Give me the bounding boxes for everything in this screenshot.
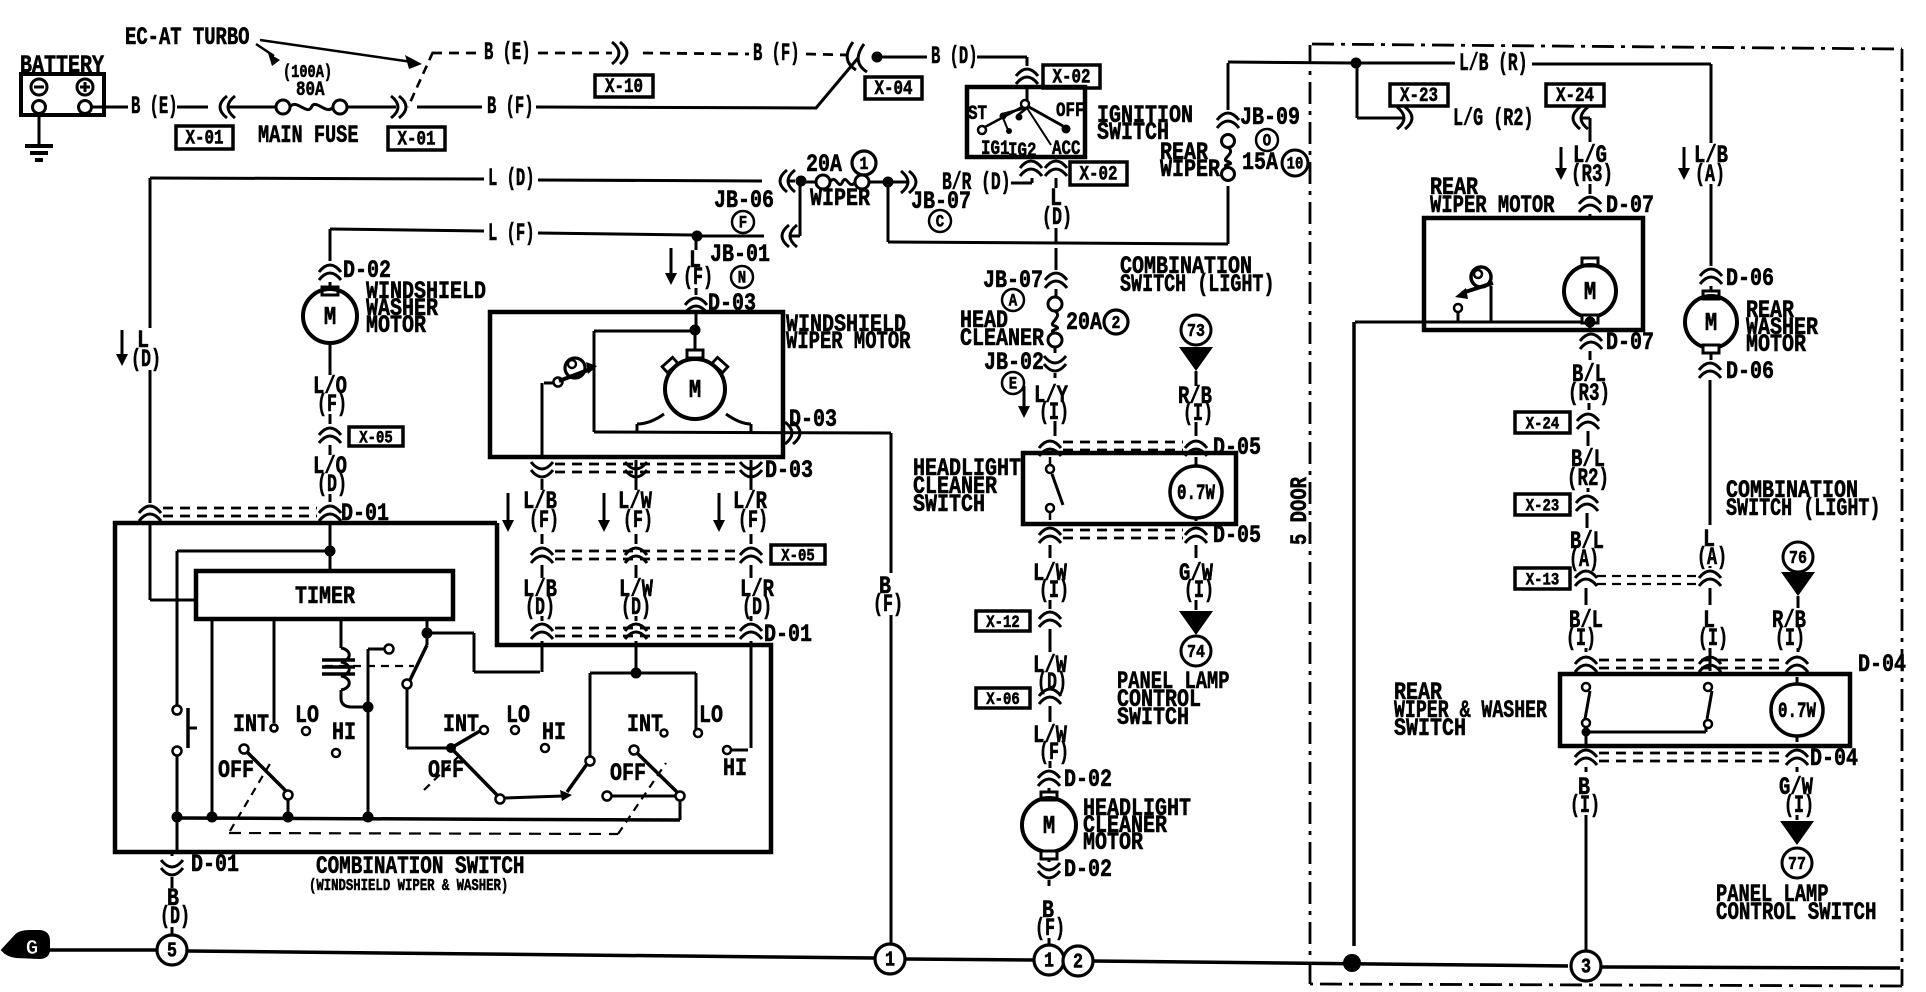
wire to section B pivot — [407, 747, 447, 750]
label COMBINATION SWITCH (LIGHT) right — [1726, 476, 1881, 523]
label L/O (D) — [313, 452, 347, 499]
svg-text:(F): (F) — [738, 506, 768, 535]
svg-text:L/B (R): L/B (R) — [1459, 49, 1528, 78]
connector D-04 top row — [1575, 650, 1906, 679]
svg-text:(D): (D) — [525, 593, 555, 622]
bus nodes 1 2 — [1034, 945, 1093, 976]
wire rear wiper feed vertical — [1227, 63, 1230, 244]
fuse 15A rear wiper — [1222, 135, 1309, 181]
label L/G (R2) — [1453, 104, 1534, 133]
wire L(D) into timer — [150, 599, 194, 602]
wire G/W from bulb — [1179, 545, 1214, 605]
switch blade B lower — [451, 748, 505, 804]
wire to D-01 row — [329, 494, 332, 502]
wire rail L(D) — [150, 164, 762, 193]
label INT A — [233, 710, 269, 739]
connector X-05 washer — [319, 428, 341, 455]
connector box X-05 washer — [349, 427, 403, 449]
wire box to D-01 — [171, 852, 174, 856]
label B/L (A) — [1569, 527, 1604, 574]
connector JB-01 N — [710, 240, 770, 288]
wiper motor M2 feed — [690, 318, 701, 350]
label IG2 — [1008, 139, 1037, 162]
label WINDSHIELD WASHER MOTOR — [366, 277, 486, 340]
dashed link EC-AT — [408, 52, 433, 107]
svg-text:1: 1 — [885, 948, 895, 972]
svg-text:ST: ST — [968, 102, 987, 125]
mech link long dash — [229, 833, 618, 834]
label INT B — [443, 710, 479, 739]
bus node 1 (left) — [875, 944, 905, 974]
svg-text:1: 1 — [860, 153, 869, 175]
circle 76 marker — [1781, 542, 1815, 608]
svg-text:INT: INT — [233, 710, 269, 739]
label L/O (F) — [313, 372, 347, 419]
wire to X-01 right — [347, 106, 396, 109]
connector D-01 row left (washer) — [139, 499, 389, 528]
svg-text:BATTERY: BATTERY — [20, 51, 105, 80]
wire B output — [505, 790, 572, 801]
connector box X-01 right — [388, 127, 445, 151]
svg-text:WIPER MOTOR: WIPER MOTOR — [1430, 191, 1555, 220]
connector D-01 bottom — [161, 850, 239, 879]
svg-text:OFF: OFF — [610, 759, 646, 788]
circle 73 from-marker — [1179, 315, 1213, 386]
wire col3 gap1 — [750, 460, 753, 490]
svg-text:MAIN FUSE: MAIN FUSE — [258, 121, 359, 150]
label LO A — [295, 701, 319, 730]
svg-text:D-02: D-02 — [1064, 855, 1112, 884]
wire C output to bus — [177, 800, 680, 820]
label OFF C — [610, 759, 646, 788]
label PANEL LAMP CONTROL SWITCH mid — [1117, 667, 1230, 732]
connector D-03 (wiper motor top) — [685, 289, 756, 318]
svg-text:76: 76 — [1789, 547, 1807, 569]
svg-text:X-01: X-01 — [398, 128, 436, 151]
connector X-10 — [595, 42, 653, 98]
svg-text:X-13: X-13 — [1526, 571, 1560, 591]
wire col2 gap2 — [635, 534, 638, 544]
svg-text:5: 5 — [167, 939, 177, 963]
svg-text:20A: 20A — [806, 150, 843, 179]
svg-text:HI: HI — [332, 718, 356, 747]
connector JB-07 A — [983, 248, 1067, 311]
svg-text:D-03: D-03 — [765, 456, 813, 485]
rear wiper motor box — [1424, 218, 1643, 330]
svg-text:OFF: OFF — [428, 756, 464, 785]
svg-text:X-02: X-02 — [1080, 163, 1118, 186]
label L/R (D) col3 — [740, 575, 775, 622]
svg-text:D-02: D-02 — [1064, 765, 1112, 794]
label INT C — [627, 710, 663, 739]
wire col2 gap1 — [635, 460, 638, 490]
svg-text:X-01: X-01 — [186, 127, 224, 150]
svg-text:WIPER MOTOR: WIPER MOTOR — [786, 327, 911, 356]
svg-text:(WINDSHIELD WIPER & WASHER): (WINDSHIELD WIPER & WASHER) — [309, 877, 508, 896]
wire washer branch — [177, 551, 330, 705]
off-page arrow 74 — [1179, 600, 1213, 666]
svg-text:B (D): B (D) — [931, 42, 978, 71]
connector X-13 with link — [1515, 568, 1699, 591]
wiper motor M2 — [665, 350, 725, 419]
svg-text:G: G — [26, 938, 39, 961]
svg-text:(D): (D) — [131, 345, 161, 374]
wire junction L(F) node — [692, 231, 703, 242]
5-door boundary — [1310, 44, 1902, 986]
label L (D) vertical — [116, 326, 161, 374]
connector X-01 right — [391, 96, 482, 118]
svg-text:0.7W: 0.7W — [1177, 481, 1215, 506]
label HI C — [723, 754, 747, 783]
svg-text:(D): (D) — [160, 902, 190, 931]
wire L to X-13 — [1697, 380, 1727, 572]
svg-text:SWITCH (LIGHT): SWITCH (LIGHT) — [1120, 270, 1275, 299]
windshield wiper motor box — [490, 312, 783, 457]
timer output 2 (INT A) — [271, 619, 278, 732]
connector JB-06 F — [714, 170, 815, 233]
svg-text:A: A — [1009, 291, 1018, 311]
connector X-23 top chevron — [1397, 107, 1412, 129]
svg-text:5 DOOR: 5 DOOR — [1287, 476, 1314, 545]
svg-text:2: 2 — [1073, 950, 1083, 974]
svg-text:(I): (I) — [1775, 624, 1805, 653]
dashed wire B(F) top rail — [643, 39, 848, 68]
wire washer feed node — [325, 522, 336, 569]
wire fuse to JB-07 — [869, 181, 884, 184]
svg-text:80A: 80A — [296, 78, 325, 101]
svg-text:D-01: D-01 — [191, 850, 239, 879]
wire drop to D-03 — [695, 240, 698, 295]
connector X-24 top chevron — [1573, 107, 1588, 129]
wire L/B (R) rail — [1228, 49, 1711, 143]
label OFF — [1056, 99, 1085, 122]
svg-text:M: M — [324, 303, 336, 332]
label HEADLIGHT CLEANER MOTOR — [1083, 794, 1191, 857]
svg-text:(D): (D) — [317, 470, 347, 499]
wire L/G (R2) — [1357, 67, 1404, 118]
svg-text:(F): (F) — [623, 506, 653, 535]
ignition switch internals — [978, 89, 1071, 145]
timer out to D-01 col1 — [427, 633, 540, 672]
svg-text:SWITCH: SWITCH — [1394, 714, 1466, 743]
svg-text:B (F): B (F) — [487, 92, 534, 121]
svg-text:MOTOR: MOTOR — [1746, 330, 1807, 359]
wire coil junction — [363, 702, 374, 814]
connector box X-02 bottom — [1070, 162, 1127, 186]
label LO C — [699, 701, 723, 730]
contact OFF C — [603, 792, 677, 801]
rear park switch cam — [1454, 267, 1493, 322]
svg-text:ACC: ACC — [1052, 137, 1081, 160]
label ACC — [1052, 137, 1081, 160]
contact LO C — [694, 729, 702, 737]
connector box X-24 top — [1546, 84, 1604, 107]
switch blade A — [240, 745, 293, 814]
wire to rear wiper motor — [1581, 118, 1590, 142]
label REAR WIPER & WASHER SWITCH — [1394, 678, 1548, 743]
svg-text:JB-09: JB-09 — [1240, 103, 1300, 132]
label HEAD CLEANER — [960, 306, 1045, 353]
svg-text:MOTOR: MOTOR — [366, 311, 427, 340]
mech link dashed (relay) — [325, 665, 414, 667]
svg-text:D-07: D-07 — [1606, 328, 1654, 357]
label REAR WIPER MOTOR — [1430, 173, 1555, 220]
svg-text:HI: HI — [542, 718, 566, 747]
svg-text:M: M — [1043, 812, 1055, 841]
leader arrow to main fuse — [256, 44, 280, 66]
wire col2 gap4 — [635, 616, 638, 621]
wire col3 gap4 — [750, 616, 753, 621]
connector X-06 — [976, 686, 1061, 710]
svg-text:(F): (F) — [317, 390, 347, 419]
svg-text:OFF: OFF — [1056, 99, 1085, 122]
svg-text:D-05: D-05 — [1213, 521, 1261, 550]
wire washer motor down — [329, 348, 332, 375]
label OFF B — [428, 756, 464, 785]
label L/B (D) col1 — [523, 575, 557, 622]
label IG1 — [981, 137, 1010, 160]
off-page arrow 77 — [1780, 815, 1814, 878]
wire L/W (F) — [1033, 706, 1069, 768]
svg-text:L (F): L (F) — [488, 219, 535, 248]
wire to D-07 — [1589, 184, 1592, 194]
svg-text:SWITCH (LIGHT): SWITCH (LIGHT) — [1726, 494, 1881, 523]
fuse 20A wiper — [806, 150, 876, 213]
wire col3 gap2 — [750, 534, 753, 544]
svg-text:LO: LO — [699, 701, 723, 730]
relay contact — [368, 645, 394, 704]
label B (I) — [1570, 767, 1600, 950]
bulb 0.7W rear switch — [1771, 677, 1823, 742]
svg-text:IG2: IG2 — [1008, 139, 1037, 162]
label COMBINATION SWITCH (WINDSHIELD WIPER & WASHER) — [309, 852, 525, 896]
battery B1 — [20, 51, 105, 115]
label LO B — [506, 701, 530, 730]
fuse 20A head cleaner — [1048, 289, 1128, 347]
svg-text:L/G (R2): L/G (R2) — [1453, 104, 1534, 133]
wire col3 into box — [750, 641, 753, 748]
wire L(F) to JB-06 — [702, 184, 800, 247]
relay coil K1 — [322, 619, 364, 707]
svg-text:D-07: D-07 — [1606, 191, 1654, 220]
svg-text:(D): (D) — [1042, 203, 1072, 232]
svg-text:SWITCH: SWITCH — [913, 490, 985, 519]
wire B(E) battery to X-01 — [91, 92, 208, 121]
wire L/W (D) — [1033, 629, 1068, 697]
dashed wire B(E) top rail — [432, 38, 612, 67]
wire D-03 output — [594, 432, 891, 433]
wire motor M4 out — [1585, 317, 1596, 332]
rear wiper washer switch box — [1560, 674, 1850, 746]
svg-text:E: E — [1009, 374, 1017, 394]
svg-text:B/R (D): B/R (D) — [942, 168, 1011, 197]
wire col2 gap3 — [635, 565, 638, 578]
label L/G (R3) — [1555, 141, 1613, 189]
switch blade B pivot — [446, 731, 480, 753]
svg-text:M: M — [689, 376, 701, 405]
rear wiper motor M4 — [1564, 258, 1616, 323]
svg-text:HI: HI — [723, 754, 747, 783]
wire bus to ground — [176, 818, 179, 850]
svg-text:3: 3 — [1581, 955, 1591, 979]
connector X-05 row — [531, 548, 762, 563]
ignition switch SW1 box — [967, 87, 1085, 157]
connector X-02 top — [1016, 69, 1038, 89]
wire col2 branches — [590, 668, 696, 758]
svg-text:(I): (I) — [1566, 624, 1596, 653]
connector JB-07 C — [893, 171, 971, 232]
label COMBINATION SWITCH (LIGHT) mid — [1120, 252, 1275, 299]
svg-text:F: F — [739, 213, 747, 233]
connector D-02 below motor — [1038, 855, 1112, 884]
headlight cleaner motor M3 — [1022, 792, 1076, 859]
contact LO A — [302, 727, 310, 735]
label WINDSHIELD WIPER MOTOR — [786, 310, 911, 356]
wire col1 gap3 — [541, 565, 544, 578]
svg-text:(A): (A) — [1569, 545, 1599, 574]
svg-text:JB-01: JB-01 — [710, 240, 770, 269]
svg-text:(I): (I) — [1698, 624, 1728, 653]
contact HI C — [723, 746, 748, 754]
ground tag G — [2, 931, 49, 961]
wire rail L(F) — [330, 219, 692, 248]
svg-text:SWITCH: SWITCH — [1117, 703, 1189, 732]
svg-text:10: 10 — [1287, 154, 1304, 174]
svg-text:2: 2 — [1112, 312, 1121, 334]
rear washer motor M5 — [1685, 291, 1737, 353]
wire motor left tab to col2 — [637, 414, 664, 432]
svg-text:D-06: D-06 — [1726, 357, 1774, 386]
svg-text:LO: LO — [295, 701, 319, 730]
svg-text:N: N — [738, 268, 746, 288]
label HI B — [542, 718, 566, 747]
label L/R (F) col3 — [713, 487, 768, 535]
label R/B (I) right — [1772, 606, 1806, 653]
connector D-06 bottom — [1699, 353, 1774, 386]
svg-text:D-04: D-04 — [1810, 744, 1858, 773]
label B/L (I) — [1566, 588, 1603, 653]
svg-text:0.7W: 0.7W — [1778, 699, 1816, 724]
label ST — [968, 102, 987, 125]
connector X-23 mid — [1515, 494, 1598, 528]
relay blade — [403, 619, 433, 748]
svg-text:(I): (I) — [1184, 576, 1214, 605]
mech link B — [424, 756, 459, 790]
wire node to park switch — [594, 331, 695, 432]
wire col2 into box — [635, 641, 638, 673]
rear switch contacts left — [1582, 683, 1591, 744]
bus junction dot (rear ground) — [1343, 954, 1361, 972]
washer switch SW2 — [173, 706, 198, 814]
wire to X-05 — [329, 414, 332, 424]
wire L/W (I) — [1033, 545, 1069, 609]
timer box — [196, 571, 453, 619]
bus node 3 — [1571, 951, 1601, 981]
wire L(D) from ignition — [1042, 178, 1072, 244]
svg-text:(D): (D) — [742, 593, 772, 622]
connector X-02 bottom chevrons — [1020, 161, 1067, 176]
svg-text:D-06: D-06 — [1726, 264, 1774, 293]
wire rear park to ground — [1354, 322, 1583, 946]
wire col3 gap3 — [750, 565, 753, 578]
bus junction dots — [172, 812, 374, 823]
connector box X-05 row — [771, 545, 825, 567]
svg-text:X-05: X-05 — [359, 429, 393, 449]
svg-text:(R3): (R3) — [1571, 160, 1613, 189]
connector D-01 row — [531, 620, 812, 649]
combination switch box outline — [115, 523, 771, 852]
svg-text:D-04: D-04 — [1858, 650, 1906, 679]
label EC-AT TURBO — [125, 23, 250, 52]
contact LO B — [511, 726, 519, 734]
svg-text:MOTOR: MOTOR — [1083, 828, 1144, 857]
label R/B (I) 73 — [1178, 382, 1213, 428]
rear switch contacts right — [1704, 683, 1712, 728]
wire L(D) left drop — [149, 178, 152, 503]
connector D-03 row below box — [531, 456, 813, 485]
label REAR WASHER MOTOR — [1746, 296, 1819, 359]
svg-text:15A: 15A — [1242, 148, 1279, 177]
connector X-24 mid — [1515, 412, 1599, 446]
wire B(D) — [880, 42, 1027, 71]
leader arrow to X-04 link — [260, 40, 422, 69]
connector JB-09 O — [1217, 103, 1300, 151]
svg-text:1: 1 — [1044, 949, 1054, 973]
timer output 1 — [211, 619, 214, 813]
ground bus wire — [49, 950, 1900, 968]
svg-text:20A: 20A — [1066, 308, 1103, 337]
svg-text:IG1: IG1 — [981, 137, 1010, 160]
svg-text:(F): (F) — [873, 590, 903, 619]
svg-text:WIPER: WIPER — [1160, 155, 1221, 184]
svg-text:73: 73 — [1187, 320, 1205, 342]
label L (I) — [1698, 606, 1728, 671]
mech link C — [618, 763, 666, 834]
main fuse 80A (100A) — [258, 61, 359, 150]
wire L/B(A) to washer — [1710, 184, 1713, 266]
svg-text:C: C — [936, 212, 945, 232]
windshield washer motor M1 — [303, 287, 357, 348]
svg-text:(F): (F) — [529, 506, 559, 535]
svg-text:X-06: X-06 — [986, 690, 1020, 710]
svg-text:X-12: X-12 — [986, 613, 1020, 633]
svg-text:D-03: D-03 — [789, 405, 837, 434]
label G/W (I) — [1779, 767, 1814, 820]
label HI A — [332, 718, 356, 747]
contact HI B — [541, 744, 549, 752]
svg-text:(I): (I) — [1183, 399, 1213, 428]
connector X-13 right chevron — [1699, 566, 1721, 605]
wire B(F) down — [873, 433, 903, 946]
park switch cam (wiper) — [542, 358, 597, 455]
svg-text:TIMER: TIMER — [295, 582, 356, 611]
bus node 5 — [157, 935, 187, 965]
label PANEL LAMP CONTROL SWITCH right — [1716, 880, 1877, 927]
headlight cleaner switch box — [1023, 453, 1236, 524]
svg-text:M: M — [1584, 278, 1596, 307]
svg-text:WIPER: WIPER — [810, 184, 871, 213]
label B/L (R2) — [1567, 445, 1609, 493]
ground (battery) — [25, 113, 53, 160]
wire col1 gap1 — [541, 479, 544, 490]
svg-text:(F): (F) — [1039, 738, 1069, 767]
connector D-02 (cleaner motor top) — [1038, 765, 1112, 794]
wire junction node (wiper fuse out) — [883, 177, 894, 188]
svg-text:(I): (I) — [1039, 576, 1069, 605]
connector D-07 bottom — [1580, 328, 1654, 357]
wire B(F) to bus — [1035, 880, 1065, 946]
label L/Y (I) — [1018, 381, 1069, 427]
